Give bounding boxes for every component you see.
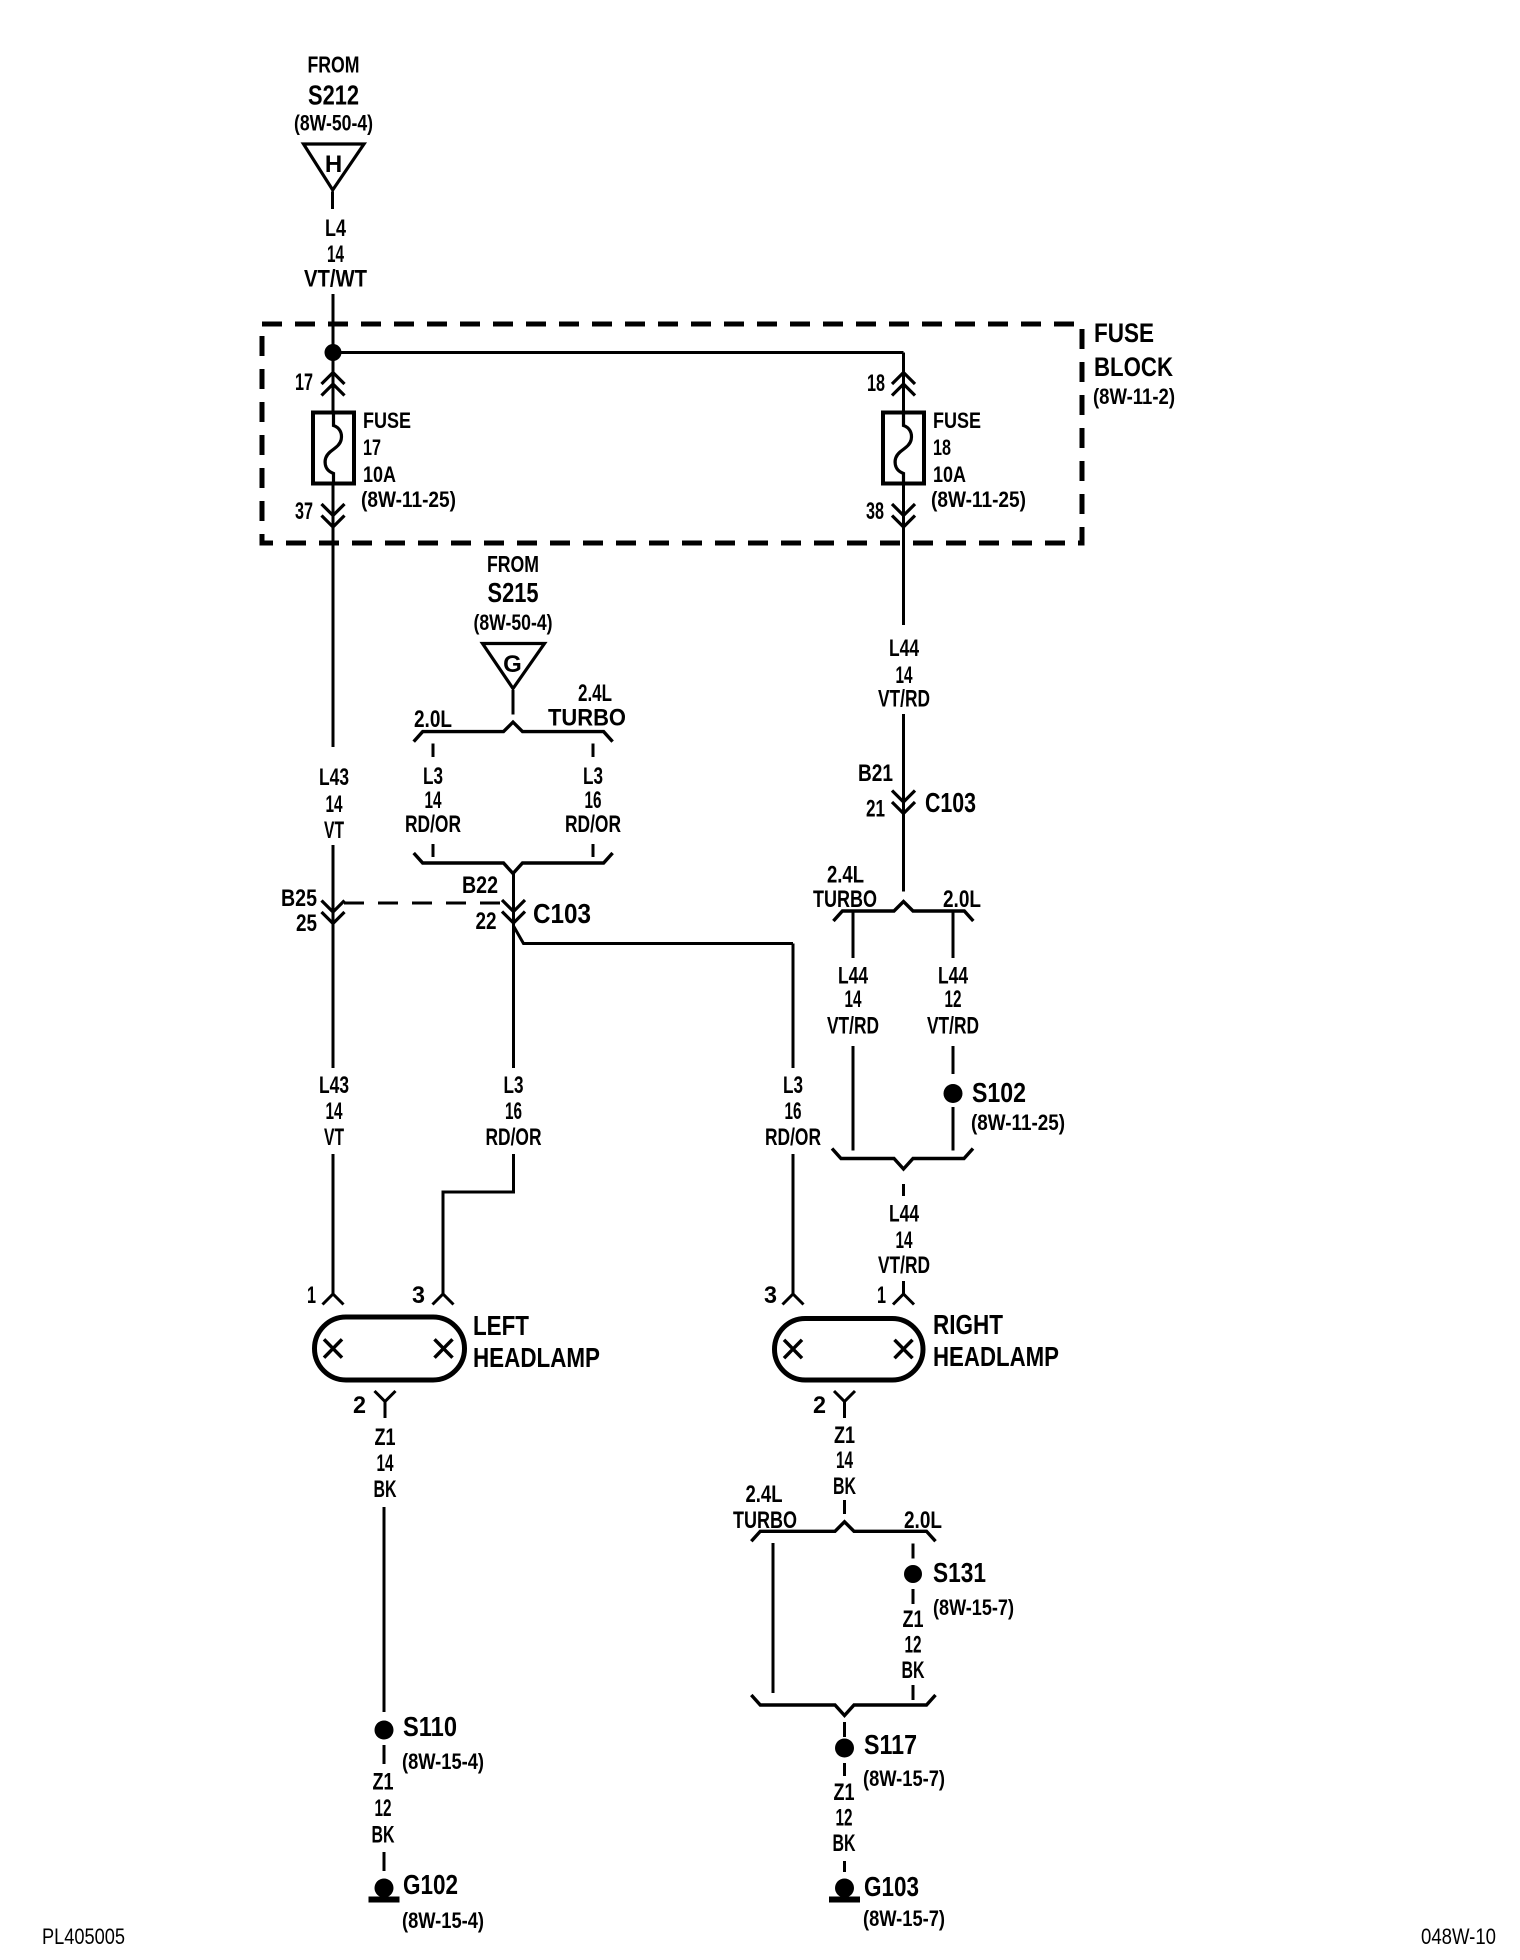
svg-text:B22: B22 [462, 872, 498, 899]
svg-text:S215: S215 [488, 577, 539, 608]
svg-text:RD/OR: RD/OR [405, 811, 461, 838]
svg-text:12: 12 [905, 1632, 922, 1659]
svg-text:14: 14 [326, 791, 343, 818]
svg-text:FUSE: FUSE [1094, 318, 1154, 348]
svg-text:2.4L: 2.4L [578, 680, 612, 707]
svg-text:TURBO: TURBO [548, 705, 626, 732]
svg-text:14: 14 [327, 241, 344, 268]
svg-text:TURBO: TURBO [813, 886, 877, 913]
svg-text:HEADLAMP: HEADLAMP [933, 1341, 1059, 1372]
svg-text:12: 12 [945, 986, 962, 1013]
svg-text:14: 14 [896, 1227, 913, 1254]
svg-text:(8W-11-25): (8W-11-25) [971, 1110, 1065, 1135]
svg-text:VT/RD: VT/RD [927, 1013, 979, 1040]
svg-text:Z1: Z1 [373, 1769, 394, 1796]
svg-text:14: 14 [377, 1450, 394, 1477]
svg-text:18: 18 [867, 370, 885, 397]
svg-text:L4: L4 [325, 215, 346, 242]
svg-text:L44: L44 [889, 635, 919, 662]
svg-text:L3: L3 [583, 763, 603, 790]
svg-text:37: 37 [295, 498, 313, 525]
svg-text:14: 14 [326, 1098, 343, 1125]
svg-text:16: 16 [505, 1098, 522, 1125]
svg-text:2.4L: 2.4L [827, 862, 864, 889]
svg-text:14: 14 [845, 986, 862, 1013]
svg-text:S131: S131 [933, 1557, 986, 1588]
svg-text:17: 17 [363, 435, 381, 460]
svg-text:FROM: FROM [308, 52, 360, 78]
svg-text:G102: G102 [403, 1869, 458, 1900]
svg-text:FUSE: FUSE [363, 408, 411, 433]
svg-text:2: 2 [353, 1392, 366, 1419]
svg-text:14: 14 [425, 787, 442, 814]
svg-text:3: 3 [412, 1282, 425, 1309]
svg-text:Z1: Z1 [834, 1779, 855, 1806]
svg-text:LEFT: LEFT [473, 1310, 529, 1341]
svg-text:14: 14 [836, 1447, 853, 1474]
svg-text:2.0L: 2.0L [904, 1507, 942, 1534]
svg-text:BK: BK [833, 1473, 856, 1500]
svg-text:(8W-15-7): (8W-15-7) [933, 1595, 1014, 1620]
svg-text:10A: 10A [933, 462, 966, 487]
svg-text:BK: BK [833, 1830, 856, 1857]
svg-text:S102: S102 [972, 1077, 1026, 1108]
svg-text:BK: BK [902, 1657, 925, 1684]
svg-text:22: 22 [476, 908, 497, 935]
svg-text:10A: 10A [363, 462, 396, 487]
svg-text:21: 21 [866, 796, 885, 823]
svg-text:Z1: Z1 [903, 1606, 924, 1633]
svg-text:L43: L43 [319, 1072, 349, 1099]
svg-text:C103: C103 [925, 787, 976, 818]
svg-text:048W-10: 048W-10 [1421, 1924, 1496, 1949]
svg-text:L3: L3 [504, 1072, 524, 1099]
svg-text:12: 12 [836, 1805, 853, 1832]
svg-text:VT: VT [324, 1124, 344, 1151]
svg-text:RD/OR: RD/OR [765, 1124, 821, 1151]
svg-text:S117: S117 [864, 1729, 917, 1760]
svg-text:L3: L3 [423, 763, 443, 790]
svg-text:VT: VT [324, 817, 344, 844]
svg-text:1: 1 [307, 1282, 316, 1309]
svg-text:L3: L3 [783, 1072, 803, 1099]
svg-text:(8W-15-4): (8W-15-4) [402, 1908, 484, 1933]
svg-text:RD/OR: RD/OR [565, 811, 621, 838]
svg-text:B21: B21 [858, 760, 893, 787]
svg-text:(8W-15-7): (8W-15-7) [863, 1906, 945, 1931]
svg-text:L44: L44 [889, 1201, 919, 1228]
svg-text:(8W-11-2): (8W-11-2) [1093, 384, 1175, 409]
svg-text:2.0L: 2.0L [414, 706, 452, 733]
svg-text:VT/RD: VT/RD [878, 686, 930, 713]
svg-text:L43: L43 [319, 764, 349, 791]
svg-text:G: G [503, 651, 522, 678]
svg-text:17: 17 [295, 369, 313, 396]
svg-text:Z1: Z1 [375, 1424, 396, 1451]
svg-text:(8W-15-4): (8W-15-4) [402, 1749, 484, 1774]
svg-text:VT/WT: VT/WT [304, 266, 367, 293]
svg-text:FUSE: FUSE [933, 408, 981, 433]
svg-text:(8W-11-25): (8W-11-25) [361, 487, 456, 512]
svg-text:2.4L: 2.4L [746, 1481, 783, 1508]
svg-text:2: 2 [813, 1392, 826, 1419]
svg-text:C103: C103 [533, 898, 591, 929]
svg-text:VT/RD: VT/RD [878, 1252, 930, 1279]
svg-text:38: 38 [866, 498, 884, 525]
svg-text:25: 25 [296, 910, 317, 937]
svg-text:VT/RD: VT/RD [827, 1013, 879, 1040]
svg-text:2.0L: 2.0L [943, 886, 981, 913]
svg-text:18: 18 [933, 435, 951, 460]
svg-text:RD/OR: RD/OR [486, 1124, 542, 1151]
svg-text:(8W-50-4): (8W-50-4) [294, 111, 373, 136]
svg-text:(8W-15-7): (8W-15-7) [863, 1766, 945, 1791]
svg-text:G103: G103 [864, 1871, 919, 1902]
svg-text:16: 16 [585, 787, 602, 814]
svg-text:3: 3 [764, 1282, 777, 1309]
svg-text:B25: B25 [281, 885, 317, 912]
svg-text:RIGHT: RIGHT [933, 1309, 1003, 1340]
svg-text:PL405005: PL405005 [42, 1924, 125, 1949]
svg-text:12: 12 [375, 1795, 392, 1822]
svg-text:S110: S110 [403, 1711, 457, 1742]
svg-text:BK: BK [374, 1476, 397, 1503]
svg-text:1: 1 [877, 1282, 886, 1309]
svg-text:BLOCK: BLOCK [1094, 352, 1173, 382]
svg-text:BK: BK [372, 1822, 395, 1849]
svg-text:16: 16 [785, 1098, 802, 1125]
svg-text:FROM: FROM [487, 551, 539, 577]
svg-text:H: H [325, 151, 342, 178]
svg-text:Z1: Z1 [834, 1422, 855, 1449]
svg-text:(8W-11-25): (8W-11-25) [931, 487, 1026, 512]
svg-text:(8W-50-4): (8W-50-4) [474, 610, 553, 635]
svg-text:TURBO: TURBO [733, 1507, 797, 1534]
svg-text:S212: S212 [308, 80, 359, 111]
svg-text:HEADLAMP: HEADLAMP [473, 1342, 600, 1373]
